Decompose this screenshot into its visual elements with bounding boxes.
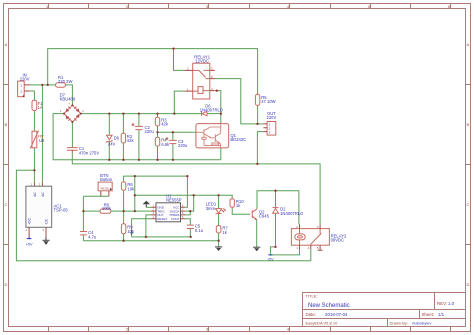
relay RELAY2	[291, 224, 329, 250]
svg-text:D: D	[5, 282, 8, 287]
wire R9 top	[123, 211, 125, 224]
wire CONT to C5	[185, 219, 190, 225]
wire AC1 left pin	[33, 170, 35, 182]
svg-text:TITLE:: TITLE:	[306, 294, 318, 299]
node dot rail195 led	[217, 194, 219, 196]
svg-text:-: -	[70, 124, 71, 128]
svg-text:A: A	[5, 42, 8, 47]
resistor R3	[155, 117, 159, 126]
wire D6 anode to collector junction	[207, 113, 221, 115]
wire bridge right to D6 cathode (mid top rail)	[81, 113, 202, 115]
wire relay1 pin4 down to Q1 collector	[215, 91, 221, 124]
fuse F1	[32, 100, 37, 110]
wire IN pin1 to R1	[30, 84, 56, 86]
node dot D2 bottom	[274, 246, 276, 248]
node dot D2 top	[274, 190, 276, 192]
resistor R7 led	[216, 226, 221, 234]
svg-text:KBU408: KBU408	[60, 97, 76, 102]
svg-text:220u: 220u	[178, 143, 188, 148]
ground flag led chain	[215, 247, 222, 251]
wire zener D6 bottom	[108, 141, 110, 159]
connector IN P1	[18, 81, 30, 97]
wire zener D6 top	[108, 114, 110, 135]
svg-text:+DC: +DC	[28, 217, 32, 224]
svg-text:2018-07-04: 2018-07-04	[325, 312, 348, 317]
wire varistor to junction	[33, 148, 35, 171]
svg-text:24V: 24V	[108, 142, 116, 147]
node dot rail mid C2	[138, 112, 140, 114]
svg-text:12VDC: 12VDC	[195, 59, 209, 64]
node dot mains junction	[33, 169, 35, 171]
svg-text:10k: 10k	[127, 229, 135, 234]
wire mains rail left and bottom	[16, 170, 310, 260]
svg-text:BD243C: BD243C	[230, 137, 246, 142]
wire C5 bottom	[189, 229, 191, 237]
wire R8 left	[83, 210, 100, 212]
node dot rail mid relay pin1	[173, 112, 175, 114]
svg-text:D: D	[467, 282, 470, 287]
node dot base node R3R4	[156, 131, 158, 133]
LED LED1	[216, 208, 226, 213]
wire C3 top	[172, 132, 174, 140]
node dot rail mid R2	[122, 112, 124, 114]
capacitor C4	[80, 232, 87, 235]
transistor Q2 C945	[252, 209, 257, 220]
wire bridge left to rail A	[53, 114, 221, 160]
svg-text:+5V: +5V	[26, 243, 33, 247]
svg-text:0.1u: 0.1u	[195, 228, 204, 233]
power arrow flag at GND pin	[143, 201, 150, 208]
svg-text:47 10W: 47 10W	[261, 99, 275, 104]
resistor R5	[255, 94, 259, 105]
wire C2 top	[138, 114, 140, 127]
node dot THRES DISCH	[189, 210, 191, 212]
svg-text:3mm: 3mm	[206, 206, 216, 211]
wire C2 bottom	[138, 130, 140, 160]
wire F1 to varistor	[33, 111, 35, 132]
svg-text:470n 275V: 470n 275V	[79, 150, 99, 155]
svg-text:CONT: CONT	[171, 217, 180, 221]
wire THRES join DISCH	[185, 211, 190, 215]
node dot railA R4	[156, 159, 158, 161]
node dot IN pin1 b	[47, 84, 49, 86]
svg-text:B: B	[5, 122, 8, 127]
capacitor C3	[166, 137, 177, 144]
svg-text:mabobylev: mabobylev	[412, 320, 431, 325]
column numbers top	[46, 4, 451, 9]
bridge rectifier D7	[60, 101, 84, 128]
node dot rail176 a	[134, 175, 136, 177]
wire button row	[83, 195, 109, 197]
column numbers bottom	[126, 327, 290, 332]
node dot TRIG	[134, 210, 136, 212]
right edge ticks	[466, 85, 471, 245]
svg-text:A: A	[467, 42, 470, 47]
resistor R10	[230, 199, 234, 208]
wire R3-R4 node	[157, 126, 159, 137]
svg-text:Drawn By:: Drawn By:	[390, 320, 408, 325]
node dot railB out3	[256, 163, 258, 165]
wire D2 bottom	[275, 213, 277, 247]
wire top loop from IN to R5	[48, 49, 258, 95]
svg-text:AC: AC	[41, 192, 45, 197]
wire2 gnd row	[83, 240, 218, 242]
wire rail B from C1 to relay2 pin3	[72, 153, 320, 224]
wire OUT pin3 to rail B	[257, 132, 263, 164]
wire relay1 pin1 to mid rail	[174, 91, 184, 114]
node dot rail mid R3	[156, 112, 158, 114]
resistor R6	[121, 182, 125, 190]
wire rail 195 to R10	[135, 195, 232, 198]
svg-text:220V: 220V	[20, 77, 30, 82]
svg-text:6.8k: 6.8k	[161, 142, 170, 147]
svg-text:Sheet:: Sheet:	[422, 312, 435, 317]
wire relay1 pin5 to OUT pin1	[215, 79, 264, 124]
IC U1 NE555P	[152, 203, 186, 222]
capacitor C1	[67, 148, 78, 153]
capacitor C2	[132, 123, 143, 130]
wire IN pin2 to F1	[30, 91, 34, 100]
wire R7 bottom	[218, 233, 220, 241]
row letters left	[5, 42, 8, 287]
wire R10 bottom to Q2 base	[232, 207, 250, 214]
transistor Q1 BD243C darlington	[196, 124, 229, 148]
svg-text:C945: C945	[259, 214, 270, 219]
power flag +5V relay2	[267, 255, 274, 262]
wire gnd stem led chain	[218, 241, 220, 247]
svg-text:U9: U9	[39, 138, 45, 143]
bottom edge ticks	[49, 327, 451, 332]
wire D2 top	[275, 191, 277, 208]
wire R6 top rail	[124, 176, 188, 182]
node dot wire2 R9	[122, 240, 124, 242]
svg-text:1N4007RLD: 1N4007RLD	[200, 107, 223, 112]
svg-text:1A: 1A	[38, 105, 43, 110]
wire relay1 pin2 drop	[174, 49, 185, 71]
svg-text:1/1: 1/1	[438, 312, 445, 317]
wire relay2 pin4 to rail	[310, 249, 312, 260]
wire bridge bottom to C1	[71, 122, 73, 147]
zener D6 24V	[106, 135, 113, 143]
svg-text:+5V: +5V	[267, 257, 274, 261]
svg-text:B: B	[467, 122, 470, 127]
resistor R4	[155, 137, 159, 146]
wire vert from rail176 to TRIG	[134, 176, 136, 211]
svg-text:220u: 220u	[145, 129, 155, 134]
node dot railA C3	[172, 159, 174, 161]
wire Q2 emitter to gnd	[256, 220, 258, 247]
wire relay2 pin1 to +5V	[270, 249, 299, 255]
PARTS	[18, 63, 330, 261]
node dot rail mid zener	[108, 112, 110, 114]
wire AC1 right pin from IN pin1	[41, 85, 43, 183]
wire R2 bottom	[122, 143, 124, 160]
svg-text:220 2W: 220 2W	[58, 79, 72, 84]
svg-text:1N4007RLG: 1N4007RLG	[280, 211, 303, 216]
node dot rail195 disch	[193, 194, 195, 196]
svg-text:AC: AC	[33, 192, 37, 197]
node dot rail mid D6 Q1	[220, 112, 222, 114]
wire R9 bottom	[123, 234, 125, 241]
svg-text:10k: 10k	[127, 186, 135, 191]
wire GND pin stub	[146, 206, 151, 208]
wire R6 bottom	[123, 190, 125, 211]
svg-text:TSP-05: TSP-05	[54, 208, 69, 213]
connector OUT	[263, 122, 275, 136]
wire Q1 base	[158, 131, 196, 133]
wire R1 to bridge top	[65, 85, 72, 105]
node dot wire1 C5	[190, 236, 192, 238]
wire R2 top	[122, 114, 124, 134]
resistor R1	[56, 83, 66, 87]
svg-text:42k: 42k	[127, 138, 135, 143]
relay RELAY1	[185, 63, 215, 99]
node dot wire2 led gnd	[217, 240, 219, 242]
node dot railA C2	[138, 159, 140, 161]
svg-text:09VDC: 09VDC	[331, 238, 345, 243]
wire OUT down	[146, 215, 152, 237]
node dot railA zener	[108, 159, 110, 161]
row letters right	[467, 42, 470, 287]
top edge ticks	[49, 4, 451, 9]
wire Q2 collector rail to relay2 pin2	[257, 191, 299, 225]
wire R3 top	[157, 114, 159, 118]
svg-text:C: C	[5, 202, 8, 207]
wire D2 node to +5V flag	[270, 247, 275, 255]
left edge ticks	[4, 85, 9, 245]
wire VCC to rail176	[185, 176, 187, 207]
svg-text:C: C	[467, 202, 470, 207]
pushbutton BTN	[98, 182, 112, 196]
svg-text:-DC: -DC	[44, 218, 48, 225]
module AC1 TSP-05	[26, 182, 52, 236]
node dot IN pin1 a	[41, 84, 43, 86]
node dot base node C3	[172, 131, 174, 133]
node dot wire1 out	[145, 236, 147, 238]
resistor R8	[100, 209, 111, 213]
svg-text:PB-22E: PB-22E	[101, 188, 110, 191]
svg-text:New Schematic: New Schematic	[308, 303, 350, 309]
varistor RV	[30, 130, 38, 148]
wire R4 bottom	[157, 146, 159, 160]
wire left vert btn-R8-C4	[82, 196, 84, 231]
node dot R8 right R9	[122, 210, 124, 212]
svg-text:REV:: REV:	[437, 301, 447, 306]
svg-text:+: +	[132, 123, 134, 127]
svg-text:D6: D6	[114, 136, 120, 141]
TITLEBLOCK	[303, 293, 466, 327]
capacitor C5	[187, 225, 194, 228]
diode D2	[273, 208, 279, 214]
wire R5 bottom	[257, 105, 259, 124]
node dot rail195 left	[134, 194, 136, 196]
resistor R2	[121, 133, 125, 143]
node dot rail176 b	[186, 175, 188, 177]
wire C3 bottom	[172, 144, 174, 160]
power flag +5V under AC1	[26, 237, 33, 247]
wire LED top	[218, 195, 220, 208]
wire DISCH up to rail195	[185, 195, 194, 211]
node dot R8 left	[82, 210, 84, 212]
wire R8 right to TRIG	[111, 210, 152, 212]
wire1 reset-C5 row	[132, 236, 191, 238]
netflag arrow at RESET	[130, 230, 133, 235]
svg-text:Date:: Date:	[306, 312, 317, 317]
svg-text:100k: 100k	[102, 206, 112, 211]
wire LED to R7	[218, 214, 220, 226]
wire Q1 emitter to rail A	[220, 148, 222, 160]
svg-text:Button: Button	[100, 177, 113, 182]
node dot OUT pin1	[256, 123, 258, 125]
node dot top rail relay1	[172, 47, 174, 49]
ground flag under AC1	[42, 237, 49, 245]
node dot railA R2	[122, 159, 124, 161]
svg-text:220V: 220V	[267, 115, 277, 120]
wire RESET down	[132, 219, 152, 237]
node dot relay1 pin4	[216, 89, 218, 91]
svg-text:42k: 42k	[161, 122, 169, 127]
ground flag Q2	[253, 247, 260, 251]
wire C4 bottom	[82, 235, 84, 241]
svg-text:1.0: 1.0	[448, 301, 455, 306]
svg-text:RESET: RESET	[157, 217, 167, 221]
svg-text:NE555P: NE555P	[166, 198, 182, 203]
svg-text:4.7u: 4.7u	[88, 234, 97, 239]
diode D6 1N4007RLD	[202, 111, 208, 115]
svg-text:EasyEDA V5.8.10: EasyEDA V5.8.10	[306, 320, 339, 325]
resistor R9	[121, 224, 125, 234]
